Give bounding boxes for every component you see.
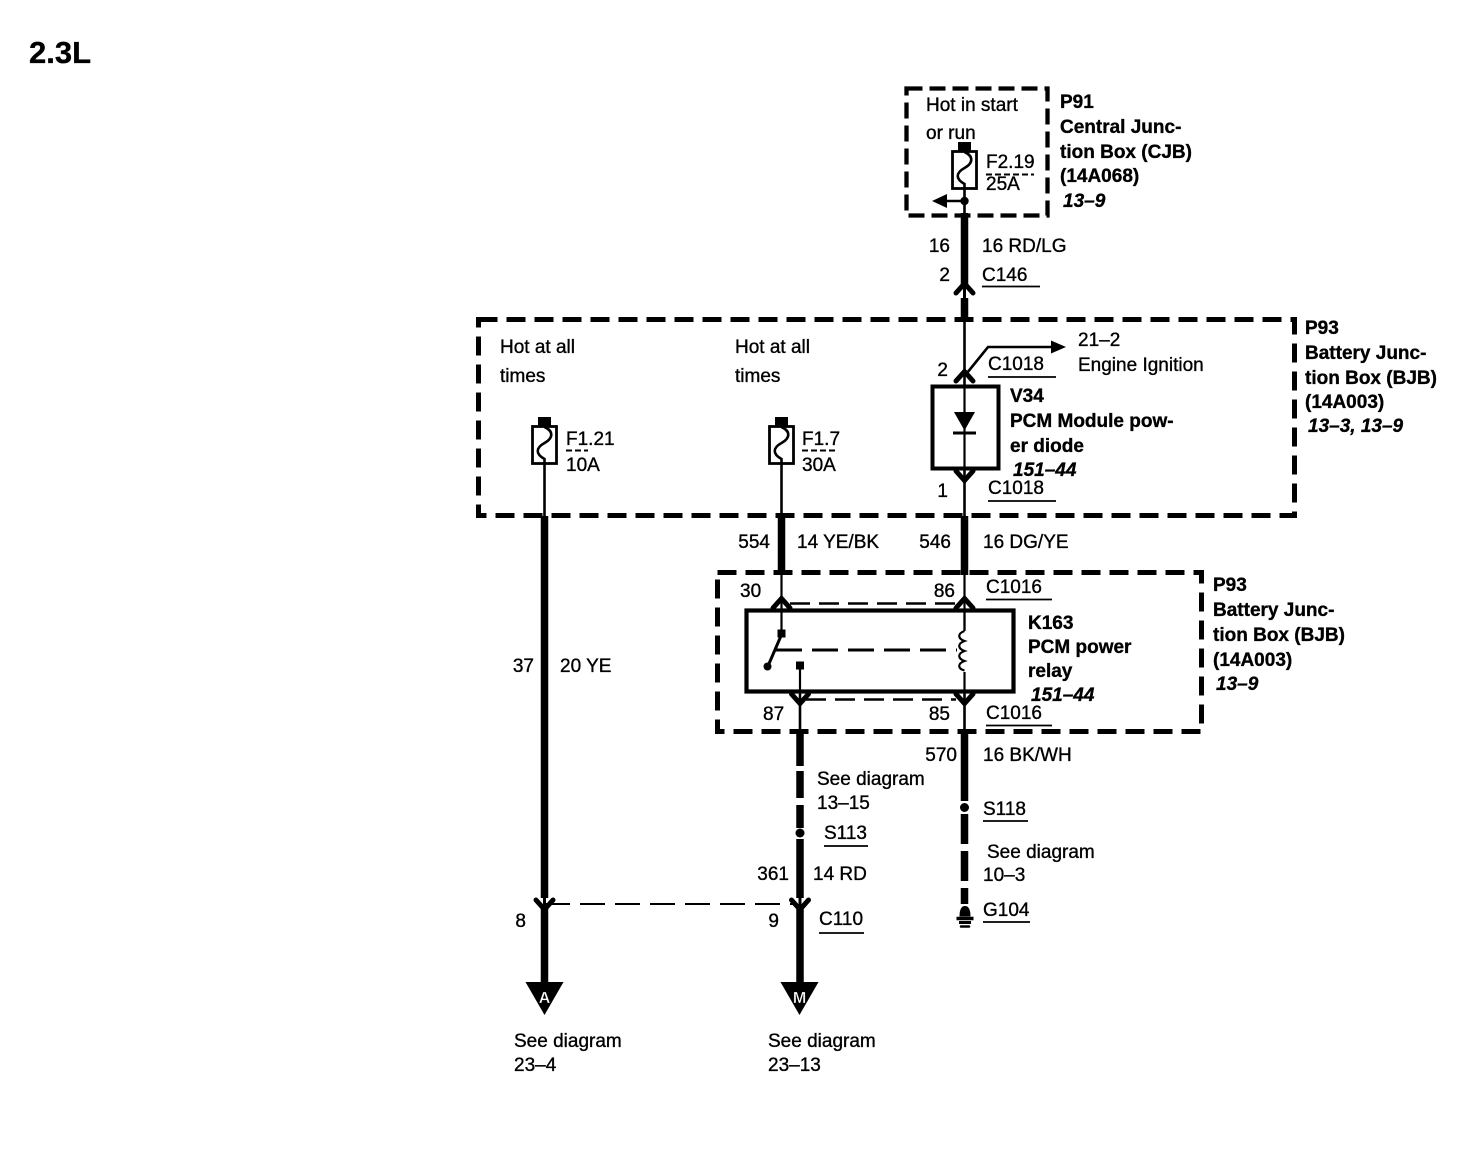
- fuse F2.19 25A: [953, 142, 1035, 195]
- svg-text:16 RD/LG: 16 RD/LG: [982, 236, 1066, 257]
- wire to off-page A: [541, 906, 549, 984]
- svg-text:or run: or run: [926, 123, 976, 144]
- wire 554 14 YE/BK: [738, 516, 879, 575]
- connector C1016 pin 85: [806, 694, 1052, 735]
- svg-text:P93: P93: [1305, 318, 1339, 339]
- svg-text:M: M: [793, 990, 806, 1007]
- svg-text:2: 2: [937, 360, 948, 381]
- wire 37 20 YE: [513, 516, 612, 906]
- svg-text:10A: 10A: [566, 455, 600, 476]
- wire 546 16 DG/YE: [919, 516, 1068, 575]
- wire fuse F1.7 output: [780, 463, 783, 519]
- svg-text:21–2: 21–2: [1078, 330, 1120, 351]
- relay coil: [959, 610, 964, 694]
- svg-text:10–3: 10–3: [983, 865, 1025, 886]
- connector C1016 pin 86: [790, 572, 1052, 631]
- label P91 Central Junction Box: [1060, 92, 1192, 212]
- junction box P93 (BJB) upper dashed enclosure: [479, 320, 1295, 516]
- svg-text:25A: 25A: [986, 174, 1020, 195]
- svg-text:er diode: er diode: [1010, 436, 1084, 457]
- svg-text:C1016: C1016: [986, 577, 1042, 598]
- svg-text:30: 30: [740, 581, 761, 602]
- svg-text:13–9: 13–9: [1063, 191, 1106, 212]
- svg-text:361: 361: [757, 864, 789, 885]
- svg-text:K163: K163: [1028, 613, 1073, 634]
- connector C1018 pin 1: [937, 469, 1056, 519]
- svg-text:13–15: 13–15: [817, 793, 870, 814]
- svg-text:2.3L: 2.3L: [29, 35, 91, 70]
- connector C146 pin 2: [939, 265, 1040, 293]
- wire from relay pin 87: [800, 732, 925, 828]
- svg-text:Hot at all: Hot at all: [500, 337, 575, 358]
- svg-text:86: 86: [934, 581, 955, 602]
- svg-text:570: 570: [925, 745, 957, 766]
- wire fuse output to branch: [963, 188, 966, 216]
- ground G104: [957, 900, 1031, 927]
- connector C110 pin 9: [768, 900, 864, 933]
- svg-text:16: 16: [929, 236, 950, 257]
- svg-text:C110: C110: [819, 909, 863, 930]
- label P93 Battery Junction Box upper: [1305, 318, 1437, 437]
- label P93 Battery Junction Box lower: [1213, 575, 1345, 695]
- svg-text:Battery Junc-: Battery Junc-: [1213, 600, 1334, 621]
- splice S118: [960, 799, 1028, 821]
- svg-text:F2.19: F2.19: [986, 152, 1035, 173]
- off-page arrow M: [768, 982, 876, 1076]
- wire 570 16 BK/WH: [925, 732, 1071, 801]
- svg-text:16 DG/YE: 16 DG/YE: [983, 532, 1069, 553]
- svg-text:Central Junc-: Central Junc-: [1060, 117, 1181, 138]
- svg-text:(14A003): (14A003): [1213, 650, 1292, 671]
- svg-text:times: times: [500, 366, 545, 387]
- svg-text:C146: C146: [982, 265, 1027, 286]
- svg-text:PCM Module pow-: PCM Module pow-: [1010, 411, 1174, 432]
- svg-text:times: times: [735, 366, 780, 387]
- svg-text:V34: V34: [1010, 386, 1044, 407]
- svg-text:546: 546: [919, 532, 951, 553]
- junction box P91 (CJB) dashed enclosure: [907, 89, 1048, 216]
- diode V34 PCM Module power diode: [933, 386, 1174, 481]
- svg-text:Hot in start: Hot in start: [926, 95, 1019, 116]
- svg-text:C1018: C1018: [988, 354, 1044, 375]
- connector C1016 pin 87: [763, 694, 809, 735]
- svg-text:(14A003): (14A003): [1305, 392, 1384, 413]
- connector C1016 pin 30: [740, 572, 790, 631]
- svg-text:tion Box (CJB): tion Box (CJB): [1060, 142, 1192, 163]
- svg-text:23–4: 23–4: [514, 1055, 557, 1076]
- svg-text:See diagram: See diagram: [768, 1031, 876, 1052]
- svg-text:F1.21: F1.21: [566, 429, 615, 450]
- splice S113: [796, 823, 869, 846]
- svg-text:See diagram: See diagram: [817, 769, 925, 790]
- svg-text:Hot at all: Hot at all: [735, 337, 810, 358]
- branch arrow to other circuit (left): [932, 194, 965, 208]
- fuse F1.7 30A: [770, 417, 841, 476]
- off-page arrow A: [514, 982, 622, 1076]
- svg-text:1: 1: [937, 481, 948, 502]
- node junction below fuse F2.19: [960, 197, 968, 205]
- svg-text:A: A: [539, 990, 551, 1007]
- svg-text:C1016: C1016: [986, 703, 1042, 724]
- svg-text:G104: G104: [983, 900, 1030, 921]
- svg-text:8: 8: [515, 911, 526, 932]
- wire 361 14 RD: [757, 839, 867, 984]
- svg-text:14 RD: 14 RD: [813, 864, 867, 885]
- svg-text:P91: P91: [1060, 92, 1094, 113]
- fuse F1.21 10A: [533, 417, 615, 476]
- junction box P93 (BJB) relay dashed enclosure: [718, 573, 1202, 732]
- svg-text:Battery Junc-: Battery Junc-: [1305, 343, 1426, 364]
- svg-text:20 YE: 20 YE: [560, 656, 611, 677]
- svg-text:13–9: 13–9: [1216, 674, 1259, 695]
- connector C1018 pin 2: [937, 316, 1056, 388]
- svg-text:P93: P93: [1213, 575, 1247, 596]
- relay K163 PCM power relay: [747, 611, 1133, 707]
- svg-text:30A: 30A: [802, 455, 836, 476]
- svg-text:85: 85: [929, 704, 950, 725]
- svg-text:2: 2: [939, 265, 950, 286]
- svg-text:Engine Ignition: Engine Ignition: [1078, 355, 1204, 376]
- svg-text:23–13: 23–13: [768, 1055, 821, 1076]
- svg-text:14 YE/BK: 14 YE/BK: [797, 532, 879, 553]
- connector pin 8: [515, 900, 553, 932]
- svg-text:37: 37: [513, 656, 534, 677]
- svg-text:See diagram: See diagram: [514, 1031, 622, 1052]
- svg-text:S118: S118: [983, 799, 1026, 820]
- svg-text:9: 9: [768, 911, 779, 932]
- relay switch contact: [764, 630, 805, 695]
- svg-text:554: 554: [738, 532, 770, 553]
- wire C146 16 RD/LG: [929, 213, 1067, 322]
- svg-text:13–3, 13–9: 13–3, 13–9: [1308, 416, 1404, 437]
- svg-text:C1018: C1018: [988, 478, 1044, 499]
- svg-text:S113: S113: [824, 823, 867, 844]
- relay actuation dashed link: [776, 649, 957, 652]
- svg-text:relay: relay: [1028, 661, 1073, 682]
- svg-text:tion Box (BJB): tion Box (BJB): [1305, 368, 1437, 389]
- svg-text:PCM power: PCM power: [1028, 637, 1132, 658]
- svg-text:87: 87: [763, 704, 784, 725]
- svg-text:F1.7: F1.7: [802, 429, 840, 450]
- svg-text:16 BK/WH: 16 BK/WH: [983, 745, 1072, 766]
- svg-text:tion Box (BJB): tion Box (BJB): [1213, 625, 1345, 646]
- svg-text:(14A068): (14A068): [1060, 166, 1139, 187]
- dashed tie line between pins 8 and 9: [545, 903, 797, 905]
- title 2.3L: [29, 35, 91, 70]
- svg-text:See diagram: See diagram: [987, 842, 1095, 863]
- arrow to 21-2 Engine Ignition: [967, 330, 1204, 376]
- wire fuse F1.21 output: [543, 463, 546, 519]
- wire to ground: [965, 814, 1095, 904]
